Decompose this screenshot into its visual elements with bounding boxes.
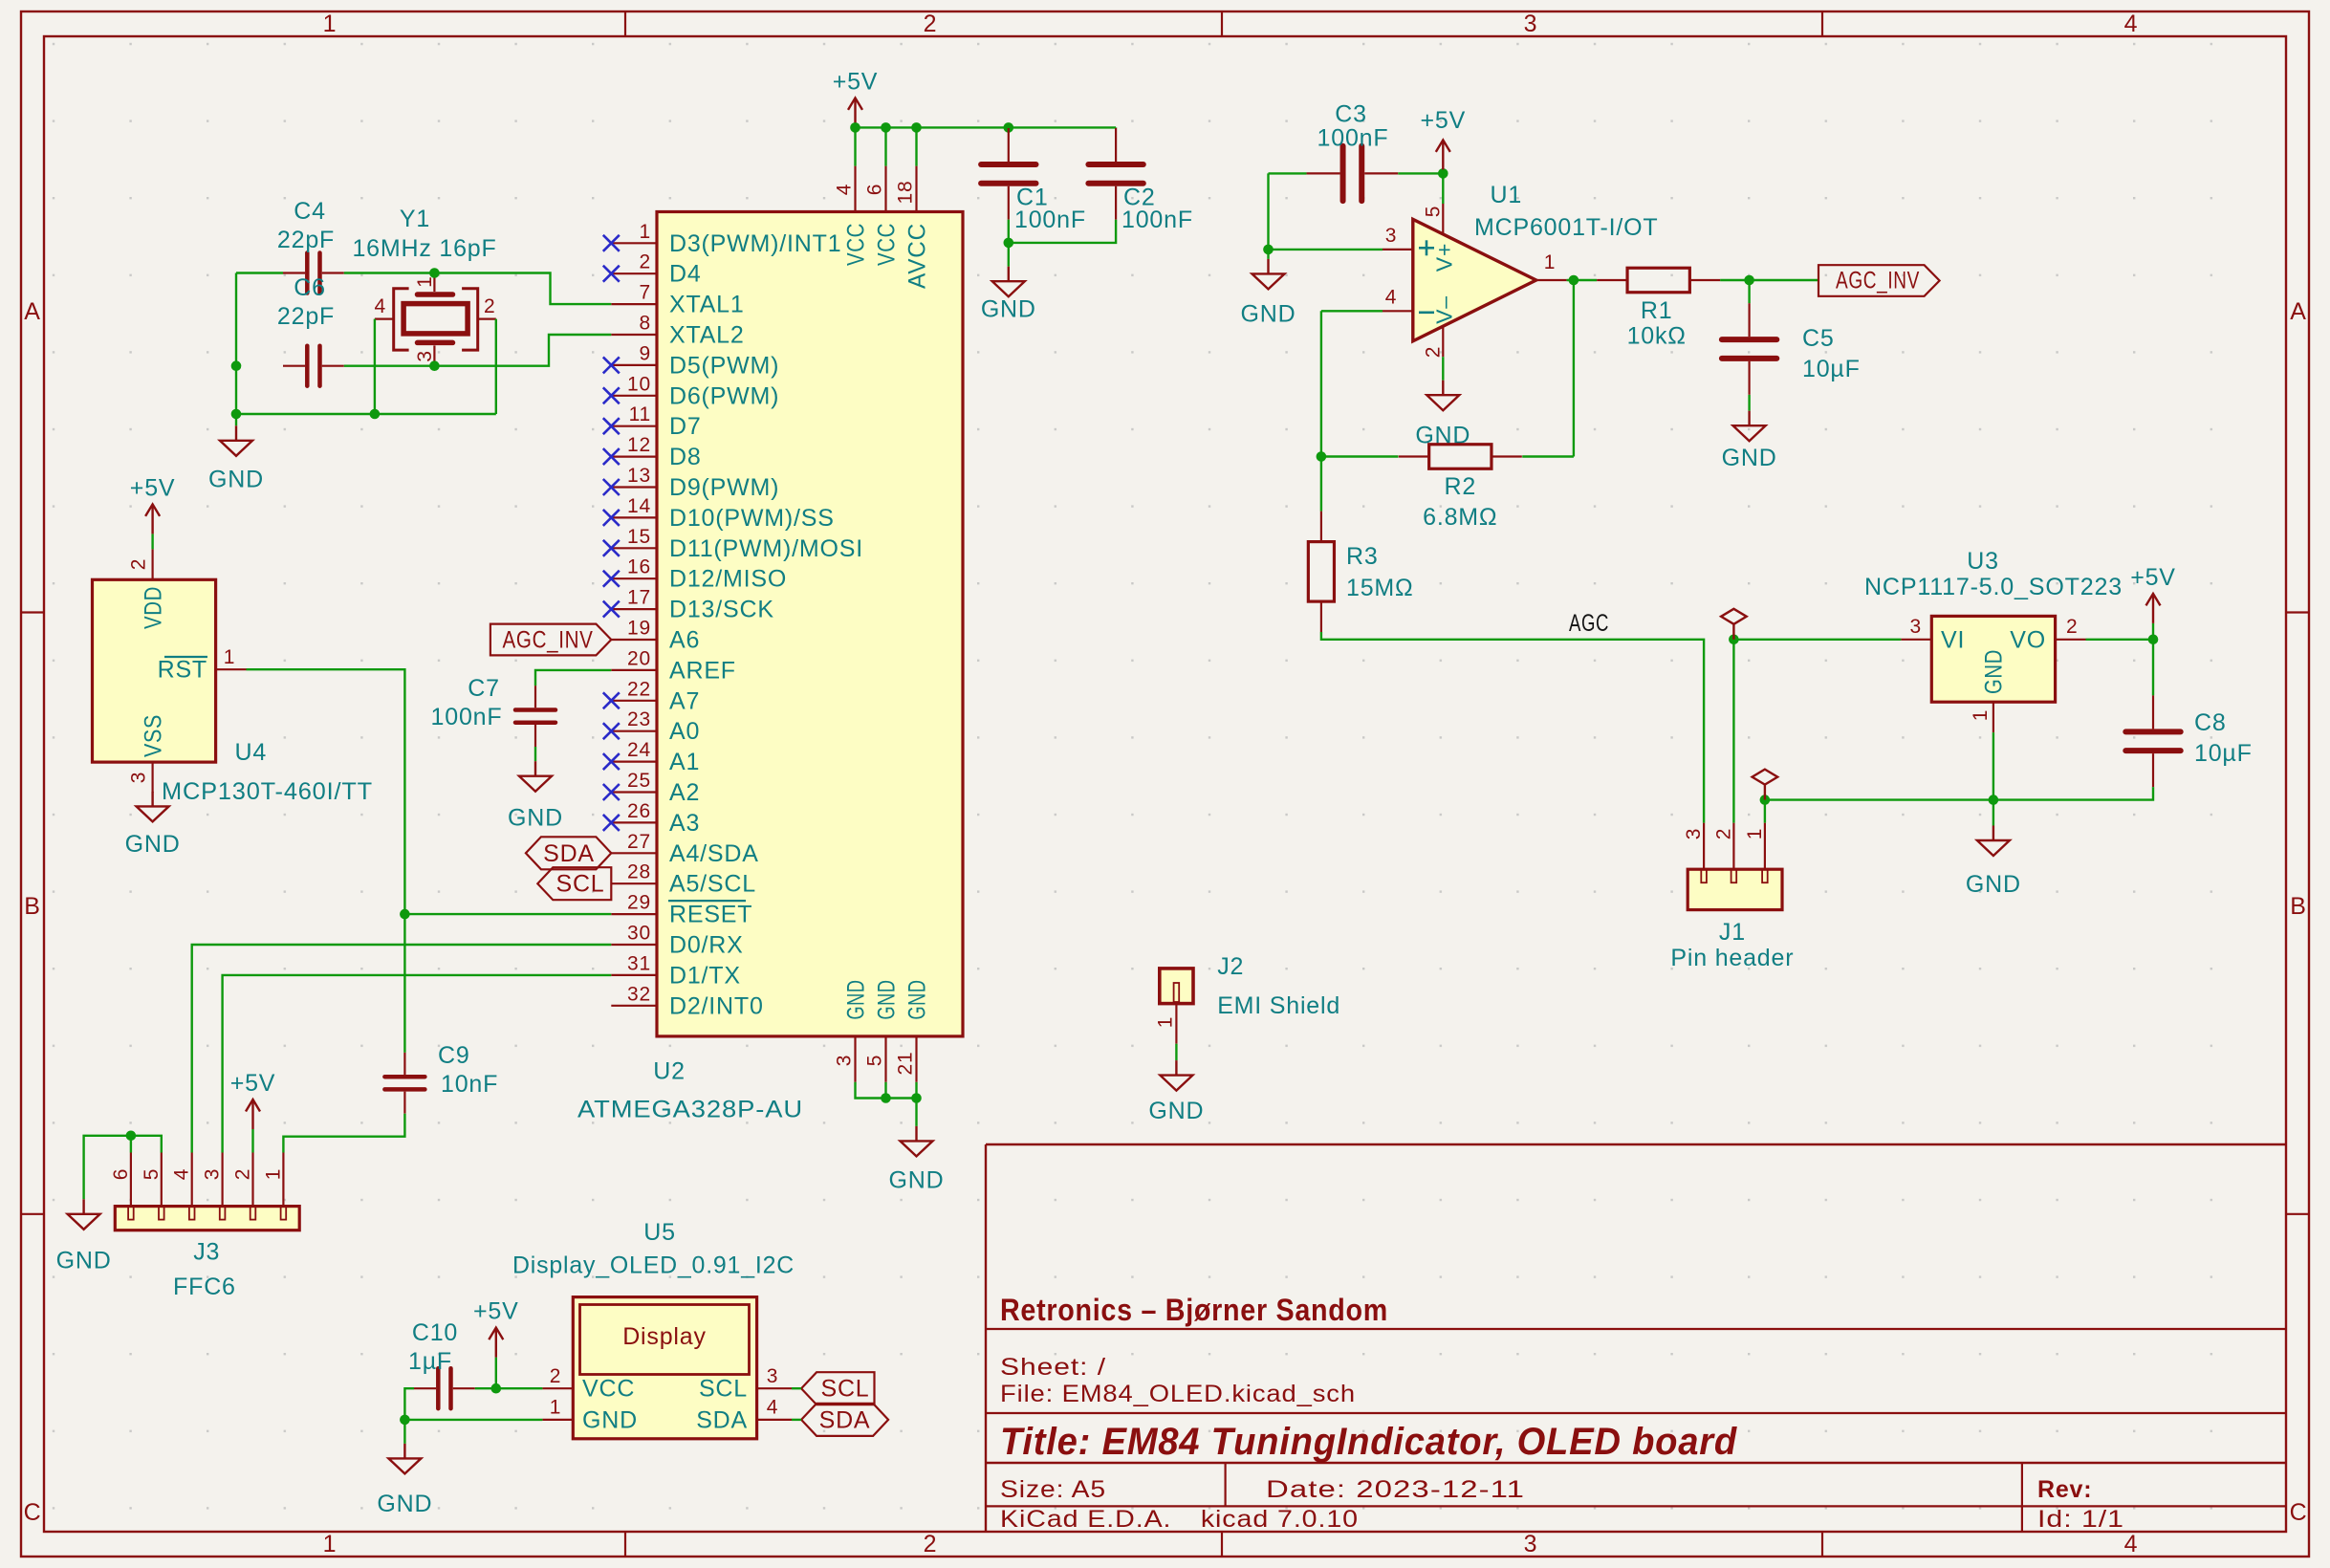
svg-text:100nF: 100nF (431, 704, 503, 730)
svg-text:RESET: RESET (669, 902, 752, 928)
global label AGC_INV output (1818, 265, 1940, 296)
svg-text:AVCC: AVCC (904, 223, 931, 289)
wire U3 gnd down (1992, 732, 1994, 800)
svg-text:GND: GND (1980, 649, 2007, 694)
svg-text:24: 24 (627, 739, 651, 761)
junction (1729, 635, 1739, 645)
wire sda stub (792, 1419, 801, 1421)
svg-text:Y1: Y1 (400, 206, 430, 232)
U5 pin 3 SCL (757, 1387, 792, 1389)
svg-text:6: 6 (110, 1168, 132, 1180)
global label AGC_INV at pin 19 (490, 624, 611, 656)
svg-text:100nF: 100nF (1317, 125, 1389, 152)
U2 pin 23 A0 (611, 730, 657, 732)
svg-text:2: 2 (484, 295, 495, 317)
wire J3 pin5 gnd (84, 1136, 162, 1200)
J2 pin slot (1174, 983, 1180, 1002)
J3 pin 4 (191, 1153, 193, 1207)
capacitor C1 100nF (981, 128, 1035, 220)
IC U3 NCP1117 body (1931, 616, 2055, 702)
svg-text:20: 20 (627, 647, 651, 669)
svg-text:GND: GND (208, 467, 264, 493)
junction (400, 1415, 410, 1426)
svg-text:GND: GND (582, 1406, 638, 1433)
svg-text:Retronics – Bjørner Sandom: Retronics – Bjørner Sandom (1000, 1293, 1388, 1327)
svg-text:3: 3 (1683, 828, 1705, 839)
svg-text:4: 4 (375, 295, 386, 317)
svg-text:1: 1 (1744, 828, 1766, 839)
resistor R3 15M (1308, 512, 1334, 632)
J2 pin 1 (1175, 1004, 1177, 1044)
svg-text:FFC6: FFC6 (173, 1274, 236, 1300)
svg-text:GND: GND (125, 831, 181, 858)
capacitor C5 10uF (1722, 303, 1776, 395)
U2 pin 7 XTAL1 (611, 303, 657, 305)
svg-text:14: 14 (627, 495, 651, 517)
wire C9 to J3 pin1 (283, 1114, 404, 1153)
svg-text:U2: U2 (653, 1058, 686, 1085)
U2 pin 10 D6(PWM) (611, 395, 657, 397)
U2 pin 28 A5/SCL (611, 882, 657, 884)
U2 pin 31 D1/TX (611, 974, 657, 976)
svg-text:+5V: +5V (230, 1070, 276, 1097)
ground C5 (1733, 411, 1766, 442)
U5 display screen rect (580, 1305, 750, 1375)
junction (1004, 238, 1014, 249)
svg-text:A0: A0 (669, 718, 700, 745)
svg-text:1: 1 (323, 11, 338, 37)
U2 pin 4 VCC top (854, 166, 856, 212)
svg-text:NCP1117-5.0_SOT223: NCP1117-5.0_SOT223 (1864, 574, 2123, 600)
svg-text:1µF: 1µF (408, 1348, 452, 1375)
wire gnd stub (403, 1420, 405, 1444)
wire C1 bottom (1008, 220, 1010, 243)
svg-text:23: 23 (627, 708, 651, 730)
wire gnd stub C3 (1267, 250, 1269, 259)
U1 pin 1 output (1536, 279, 1567, 281)
wire to +5V U5 (495, 1358, 497, 1389)
op-amp U1 MCP6001 body (1413, 219, 1536, 340)
U1 +/- input marks (1419, 240, 1434, 312)
U2 pin 8 XTAL2 (611, 334, 657, 336)
svg-text:30: 30 (627, 923, 651, 945)
wire gnd pin21 down (915, 1082, 917, 1126)
ground C1 C2 (992, 267, 1025, 297)
wire scl stub (792, 1387, 801, 1389)
svg-text:R3: R3 (1346, 543, 1379, 570)
svg-text:C7: C7 (468, 675, 500, 702)
no-connect pin 26 (603, 815, 620, 831)
U2 pin 18 AVCC top (915, 166, 917, 212)
svg-text:Pin header: Pin header (1670, 945, 1794, 971)
svg-text:U4: U4 (235, 739, 268, 766)
svg-text:+5V: +5V (130, 474, 176, 501)
ground U1 pin2 (1426, 381, 1459, 411)
svg-text:Rev:: Rev: (2037, 1476, 2092, 1503)
svg-text:SCL: SCL (699, 1376, 748, 1403)
svg-text:3: 3 (202, 1168, 224, 1180)
svg-text:File: EM84_OLED.kicad_sch: File: EM84_OLED.kicad_sch (1000, 1381, 1356, 1407)
U5 pin 2 VCC (542, 1387, 573, 1389)
no-connect pin 23 (603, 723, 620, 739)
U1 pin 5 V+ (1442, 204, 1444, 234)
svg-text:C10: C10 (412, 1319, 458, 1346)
svg-text:1: 1 (640, 221, 651, 243)
wire to C5 (1748, 280, 1750, 303)
junction (491, 1383, 502, 1394)
svg-text:1: 1 (1544, 251, 1556, 273)
IC U5 Display OLED body (573, 1297, 756, 1439)
svg-text:2: 2 (924, 1531, 938, 1557)
J3 pin 2 (251, 1153, 253, 1207)
wire R2 left (1321, 455, 1399, 457)
wire 5v stub (1442, 169, 1444, 173)
junction (1989, 795, 1999, 805)
svg-text:C6: C6 (294, 274, 326, 301)
svg-text:D9(PWM): D9(PWM) (669, 474, 779, 501)
global label SDA at pin 27 (526, 837, 611, 869)
svg-text:AGC_INV: AGC_INV (503, 627, 594, 654)
svg-text:D3(PWM)/INT1: D3(PWM)/INT1 (669, 230, 841, 257)
wire R1 to node (1720, 279, 1749, 281)
ground C7 (519, 761, 552, 792)
svg-text:16MHz 16pF: 16MHz 16pF (352, 235, 496, 262)
svg-text:15MΩ: 15MΩ (1346, 575, 1414, 601)
svg-text:A: A (2290, 298, 2306, 325)
U2 pin 25 A2 (611, 791, 657, 793)
capacitor C9 10nF (384, 1053, 425, 1114)
junction (911, 1093, 922, 1103)
svg-text:4: 4 (1385, 287, 1397, 309)
svg-text:R1: R1 (1641, 297, 1673, 324)
global label SCL at U5 (801, 1372, 874, 1405)
U4 pin 3 VSS (152, 762, 154, 793)
resistor R2 6.8M (1399, 445, 1522, 469)
svg-text:R2: R2 (1445, 473, 1477, 500)
svg-text:100nF: 100nF (1121, 207, 1193, 233)
crystal Y1 16MHz (375, 273, 496, 366)
wire C2 bottom to C1 (1009, 220, 1116, 243)
wire AREF to C7 (535, 670, 611, 686)
svg-text:100nF: 100nF (1014, 207, 1086, 233)
wire C7 gnd (534, 747, 536, 761)
IC U4 MCP130T body (93, 579, 216, 762)
wire to C8 (2152, 640, 2154, 696)
svg-text:AREF: AREF (669, 657, 736, 684)
connector J2 EMI shield body (1160, 969, 1193, 1004)
wire C2 top (1115, 126, 1117, 129)
capacitor C10 1uF (414, 1368, 475, 1408)
svg-text:1: 1 (262, 1168, 284, 1180)
svg-text:10µF: 10µF (1802, 356, 1861, 382)
power +5V U3 (2146, 594, 2161, 623)
wire to opamp pin3 (1269, 249, 1383, 250)
U2 pin 32 D2/INT0 (611, 1005, 657, 1007)
wire crystal shield gnd (236, 413, 496, 415)
J1 pin 2 (1732, 823, 1734, 870)
svg-text:28: 28 (627, 861, 651, 883)
svg-text:B: B (2290, 893, 2306, 920)
svg-text:8: 8 (640, 313, 651, 335)
wire +5V rail (856, 126, 1117, 128)
U2 pin 3 GND bottom (854, 1036, 856, 1082)
svg-text:GND: GND (1241, 300, 1296, 327)
svg-text:J3: J3 (193, 1238, 220, 1265)
junction (911, 122, 922, 133)
U4 pin 1 RST (216, 668, 247, 670)
U1 pin 3 + input (1383, 249, 1413, 250)
svg-text:C9: C9 (438, 1042, 470, 1069)
svg-text:15: 15 (627, 526, 651, 548)
svg-text:D10(PWM)/SS: D10(PWM)/SS (669, 505, 835, 532)
svg-text:SDA: SDA (696, 1406, 748, 1433)
svg-text:27: 27 (627, 831, 651, 853)
U3 pin 3 VI (1901, 639, 1931, 641)
no-connect pin 2 (603, 266, 620, 282)
wire inverting input vertical (1320, 311, 1322, 456)
wire avcc pin18 (915, 127, 917, 165)
U2 pin 17 D13/SCK (611, 608, 657, 610)
svg-text:MCP130T-460I/TT: MCP130T-460I/TT (162, 778, 373, 805)
U5 pin 4 SDA (757, 1419, 792, 1421)
svg-text:+5V: +5V (473, 1298, 519, 1325)
svg-text:22pF: 22pF (277, 227, 335, 253)
svg-text:10: 10 (627, 373, 651, 395)
svg-text:Title: EM84 TuningIndicator, O: Title: EM84 TuningIndicator, OLED board (1000, 1421, 1738, 1463)
junction (881, 122, 891, 133)
svg-text:16: 16 (627, 556, 651, 578)
ground C10 (388, 1444, 421, 1474)
U2 pin 20 AREF (611, 669, 657, 671)
svg-text:Id: 1/1: Id: 1/1 (2037, 1506, 2124, 1533)
svg-text:EMI Shield: EMI Shield (1217, 992, 1340, 1019)
wire gnd vertical left of C4/C6 (235, 273, 237, 426)
wire AGC net to J1 pin3 (1321, 632, 1704, 823)
svg-text:3: 3 (1524, 1531, 1538, 1557)
junction (1744, 275, 1754, 286)
no-connect pin 24 (603, 753, 620, 770)
capacitor C7 100nF (515, 686, 555, 747)
svg-text:VI: VI (1941, 626, 1965, 653)
svg-text:GND: GND (1722, 445, 1777, 471)
wire Y1 pin4 down (374, 319, 376, 414)
no-connect pin 14 (603, 510, 620, 526)
global label SDA at U5 (801, 1404, 888, 1436)
ground U4 VSS (137, 792, 169, 822)
U1 pin 2 V- (1442, 326, 1444, 357)
svg-text:2: 2 (550, 1365, 561, 1387)
U2 pin 13 D9(PWM) (611, 486, 657, 488)
connector J3 FFC6 body (115, 1207, 299, 1230)
svg-text:GND: GND (874, 980, 901, 1020)
svg-text:1: 1 (550, 1397, 561, 1419)
junction (2148, 635, 2159, 645)
svg-text:C: C (24, 1499, 42, 1526)
svg-text:GND: GND (904, 980, 931, 1020)
svg-text:VCC: VCC (843, 223, 870, 266)
svg-text:22: 22 (627, 678, 651, 700)
svg-text:2: 2 (1712, 828, 1734, 839)
svg-text:+5V: +5V (1421, 107, 1467, 134)
U2 pin 24 A1 (611, 760, 657, 762)
svg-text:VCC: VCC (874, 223, 901, 266)
svg-text:KiCad E.D.A. kicad 7.0.10: KiCad E.D.A. kicad 7.0.10 (1000, 1506, 1359, 1533)
svg-text:SCL: SCL (820, 1376, 869, 1403)
svg-text:3: 3 (834, 1055, 856, 1066)
svg-text:7: 7 (640, 282, 651, 304)
svg-text:D8: D8 (669, 444, 702, 470)
no-connect pin 22 (603, 692, 620, 708)
svg-text:29: 29 (627, 892, 651, 914)
wire C3 right (1398, 172, 1443, 174)
wire opamp out (1567, 279, 1598, 281)
wire C3 left (1269, 172, 1307, 174)
wire XTAL1 net (344, 273, 612, 305)
junction (1760, 795, 1771, 805)
wire to pin4 (1321, 310, 1383, 312)
wire RST to reset net (247, 669, 405, 1053)
svg-text:SDA: SDA (543, 840, 595, 867)
svg-text:12: 12 (627, 434, 651, 456)
wire Y1 pin2 down (495, 319, 497, 414)
junction (1569, 275, 1579, 286)
svg-text:A6: A6 (669, 627, 700, 654)
svg-text:VSS: VSS (141, 714, 167, 757)
junction (231, 409, 242, 420)
wire U2 gnd pins (856, 1082, 917, 1099)
svg-text:XTAL1: XTAL1 (669, 292, 745, 318)
wire J2 gnd (1175, 1044, 1177, 1060)
ground crystal (220, 425, 252, 456)
svg-text:5: 5 (141, 1168, 163, 1180)
svg-text:D5(PWM): D5(PWM) (669, 352, 779, 379)
svg-text:GND: GND (508, 804, 563, 831)
wire gnd to U5 (404, 1419, 542, 1421)
junction (881, 1093, 891, 1103)
wire J3 pin6 up (130, 1136, 132, 1153)
svg-text:5: 5 (1423, 206, 1445, 217)
no-connect pin 1 (603, 235, 620, 251)
svg-text:1: 1 (1970, 709, 1992, 721)
svg-text:C8: C8 (2194, 709, 2227, 736)
U1 pin 4 - input (1383, 310, 1413, 312)
svg-text:D4: D4 (669, 261, 702, 288)
junction (1263, 245, 1274, 255)
svg-text:XTAL2: XTAL2 (669, 322, 745, 349)
U2 pin 30 D0/RX (611, 944, 657, 946)
svg-text:4: 4 (2124, 11, 2139, 37)
svg-text:6: 6 (864, 184, 886, 195)
svg-text:26: 26 (627, 800, 651, 822)
svg-text:Display_OLED_0.91_I2C: Display_OLED_0.91_I2C (512, 1252, 795, 1279)
svg-text:SDA: SDA (819, 1406, 871, 1433)
svg-text:Sheet: /: Sheet: / (1000, 1354, 1106, 1381)
svg-text:A7: A7 (669, 687, 700, 714)
svg-text:RST: RST (158, 657, 207, 684)
resistor R1 10k (1597, 268, 1720, 293)
wire to AGC_INV label (1750, 279, 1818, 281)
U2 pin 11 D7 (611, 425, 657, 427)
ground U3 C8 (1977, 826, 2010, 857)
junction (429, 360, 440, 371)
junction (1438, 168, 1448, 179)
global label SCL at pin 28 (537, 867, 611, 900)
svg-text:31: 31 (627, 952, 651, 974)
svg-text:2: 2 (232, 1168, 254, 1180)
wire VO to 5V node (2086, 639, 2154, 641)
junction (370, 409, 381, 420)
svg-text:GND: GND (981, 296, 1036, 323)
svg-text:A: A (24, 298, 40, 325)
U2 pin 21 GND bottom (915, 1036, 917, 1082)
wire gnd rail to J1 pin1 (1765, 787, 2153, 800)
svg-text:Date: 2023-12-11: Date: 2023-12-11 (1266, 1476, 1525, 1503)
wire vcc pin4 (854, 127, 856, 165)
svg-text:A2: A2 (669, 779, 700, 806)
border row ticks (21, 611, 44, 613)
svg-text:D2/INT0: D2/INT0 (669, 992, 764, 1019)
svg-text:25: 25 (627, 770, 651, 792)
wire pin2 gnd (1442, 357, 1444, 381)
U2 pin 9 D5(PWM) (611, 364, 657, 366)
svg-text:V+: V+ (1431, 243, 1456, 272)
svg-text:6.8MΩ: 6.8MΩ (1423, 504, 1497, 531)
svg-text:2: 2 (1423, 346, 1445, 358)
svg-text:D0/RX: D0/RX (669, 932, 744, 959)
svg-text:1: 1 (323, 1531, 338, 1557)
wire feedback vertical (1573, 280, 1575, 457)
capacitor C2 100nF (1088, 128, 1143, 220)
svg-text:4: 4 (171, 1168, 193, 1180)
capacitor C8 10uF (2125, 695, 2180, 787)
J3 pin 1 (282, 1153, 284, 1207)
U2 pin 6 VCC top (884, 166, 886, 212)
U2 pin 12 D8 (611, 456, 657, 458)
no-connect pin 25 (603, 784, 620, 800)
ground J2 (1160, 1060, 1192, 1091)
U2 pin 27 A4/SDA (611, 852, 657, 854)
U4 pin 2 VDD (152, 549, 154, 579)
junction (231, 360, 242, 371)
U2 pin 1 D3(PWM)/INT1 (611, 242, 657, 244)
connector J1 pin header body (1688, 869, 1782, 909)
svg-text:A4/SDA: A4/SDA (669, 840, 759, 867)
svg-text:D13/SCK: D13/SCK (669, 597, 774, 623)
svg-text:ATMEGA328P-AU: ATMEGA328P-AU (577, 1096, 803, 1122)
svg-text:3: 3 (1524, 11, 1538, 37)
svg-text:3: 3 (1910, 616, 1922, 638)
svg-text:10µF: 10µF (2194, 740, 2253, 767)
U2 pin 16 D12/MISO (611, 577, 657, 579)
wire R2 right (1522, 455, 1574, 457)
svg-text:10nF: 10nF (441, 1071, 498, 1098)
svg-text:2: 2 (924, 11, 938, 37)
power flag PWR_FLAG VI (1721, 609, 1747, 640)
svg-text:22pF: 22pF (277, 303, 335, 330)
U2 pin 19 A6 (611, 639, 657, 641)
J3 pin 3 (222, 1153, 224, 1207)
wire C4 left (236, 272, 283, 273)
svg-text:3: 3 (414, 350, 436, 361)
no-connect pin 17 (603, 601, 620, 618)
no-connect pin 11 (603, 418, 620, 434)
svg-text:AGC: AGC (1569, 610, 1609, 637)
junction (126, 1131, 137, 1142)
svg-text:4: 4 (834, 184, 856, 195)
wire XTAL2 net (344, 335, 612, 366)
power +5V J3 (246, 1100, 260, 1129)
title block outline (986, 1143, 2286, 1145)
